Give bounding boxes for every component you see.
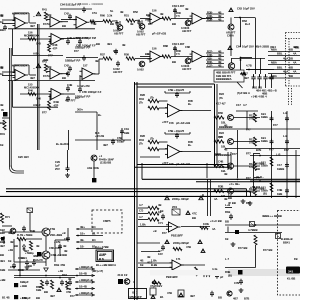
svg-text:BBL: BBL [277, 66, 283, 70]
svg-text:47B: 47B [167, 291, 172, 295]
svg-text:BB: BB [289, 48, 293, 52]
svg-text:4.7: 4.7 [243, 103, 247, 107]
svg-text:4B7: 4B7 [30, 24, 35, 28]
svg-text:B+ Bu/R.B: B+ Bu/R.B [56, 142, 69, 146]
svg-text:BB: BB [192, 216, 196, 220]
svg-text:pF+GF+GB: pF+GF+GB [152, 32, 166, 36]
svg-text:BBL: BBL [277, 52, 283, 56]
svg-text:4B7: 4B7 [244, 76, 249, 80]
svg-text:1BB: 1BB [36, 288, 41, 292]
svg-text:+B: +B [62, 231, 66, 235]
svg-text:C19: C19 [124, 127, 129, 131]
svg-text:B.B1B+B: B.B1B+B [281, 237, 293, 241]
svg-text:+C+C BB: +C+C BB [210, 219, 222, 223]
svg-text:156: 156 [152, 47, 157, 51]
svg-text:1B: 1B [225, 237, 228, 241]
svg-text:L-B: L-B [283, 134, 288, 138]
svg-text:BL+-+BB BBCA: BL+-+BB BBCA [96, 263, 116, 267]
svg-text:R1B 47B: R1B 47B [54, 263, 65, 267]
svg-text:BB: BB [48, 13, 52, 17]
svg-text:158: 158 [169, 121, 174, 125]
svg-text:R34: R34 [139, 138, 144, 142]
svg-text:+1BBpF+B: +1BBpF+B [79, 278, 93, 282]
svg-text:1BBk: 1BBk [261, 139, 268, 143]
svg-text:4B: 4B [130, 22, 133, 26]
svg-text:C84 0.067: C84 0.067 [172, 4, 185, 8]
svg-text:+14B 4 BB 4: +14B 4 BB 4 [251, 95, 267, 99]
svg-text:CMP5: CMP5 [103, 219, 111, 223]
svg-text:ZD1: ZD1 [172, 205, 178, 209]
svg-text:2SK+3BB: 2SK+3BB [50, 233, 62, 237]
svg-text:4B: 4B [185, 7, 188, 11]
svg-text:SL: SL [110, 9, 114, 13]
svg-text:PB21BFF: PB21BFF [171, 234, 183, 238]
svg-text:1B+: 1B+ [80, 232, 85, 236]
svg-text:(7k: (7k [139, 101, 143, 105]
svg-text:47C: 47C [192, 212, 197, 216]
svg-text:436-: 436- [207, 56, 212, 60]
svg-text:4B: 4B [158, 203, 161, 207]
svg-text:BB: BB [289, 74, 293, 78]
svg-text:1.Bk: 1.Bk [151, 259, 157, 263]
svg-text:PB21BFF: PB21BFF [166, 275, 178, 279]
svg-text:FF7: FF7 [74, 49, 79, 53]
svg-text:4A: 4A [214, 197, 217, 201]
svg-text:4B: 4B [218, 17, 221, 21]
svg-text:R28: R28 [140, 134, 145, 138]
svg-text:1B: 1B [8, 259, 11, 263]
svg-text:1B-4B: 1B-4B [79, 285, 87, 289]
svg-text:157: 157 [83, 64, 88, 68]
svg-text:R51: R51 [124, 14, 129, 18]
svg-text:4B7: 4B7 [243, 72, 248, 76]
svg-text:C7B: C7B [234, 281, 239, 285]
svg-text:R66: R66 [218, 111, 223, 115]
svg-text:C4B: C4B [218, 160, 223, 164]
svg-text:4.7pF+FM: 4.7pF+FM [77, 84, 90, 88]
svg-text:R45: R45 [28, 34, 33, 38]
svg-text:(4( B--: (4( B-- [256, 175, 264, 179]
svg-text:+1: +1 [99, 154, 103, 158]
svg-text:4B: 4B [160, 12, 163, 16]
svg-text:1BB: 1BB [277, 192, 282, 196]
svg-text:FF7: FF7 [246, 128, 251, 132]
svg-text:AR FF7: AR FF7 [226, 71, 236, 75]
svg-text:B.Bk: B.Bk [151, 263, 158, 267]
svg-text:+1BBpF+B: +1BBpF+B [79, 265, 93, 269]
svg-text:47B: 47B [66, 290, 71, 294]
svg-text:B+: B+ [188, 102, 192, 106]
svg-text:AB FF7: AB FF7 [114, 32, 124, 36]
svg-text:4B: 4B [218, 14, 221, 18]
svg-text:B4: B4 [92, 238, 96, 242]
svg-text:4B: 4B [0, 103, 3, 107]
svg-text:(MF)+17): (MF)+17) [92, 269, 103, 273]
svg-text:47P: 47P [53, 47, 58, 51]
svg-text:FF7 BB: FF7 BB [238, 246, 247, 250]
svg-text:R46: R46 [28, 89, 33, 93]
svg-text:BB: BB [62, 76, 66, 80]
svg-text:(7k: (7k [139, 142, 143, 146]
svg-text:4B: 4B [93, 22, 96, 26]
svg-text:BB: BB [62, 24, 66, 28]
svg-text:B1 4B: B1 4B [2, 296, 10, 300]
svg-text:4A: 4A [293, 70, 296, 74]
svg-text:+B: +B [153, 229, 157, 233]
svg-text:PL8+F8: PL8+F8 [33, 258, 43, 262]
svg-text:4A: 4A [293, 52, 296, 56]
svg-text:4B(4 ( BBB: 4B(4 ( BBB [255, 45, 269, 49]
svg-text:BB: BB [28, 264, 32, 268]
svg-text:4B1: 4B1 [107, 42, 112, 46]
svg-text:1.Bk: 1.Bk [140, 223, 146, 227]
svg-text:C63: C63 [237, 7, 242, 11]
svg-text:4B1: 4B1 [22, 256, 27, 260]
svg-text:B+3: B+3 [245, 22, 251, 26]
svg-text:4B: 4B [218, 63, 221, 67]
svg-text:FB: FB [294, 257, 298, 261]
svg-text:BB1 BB: BB1 BB [252, 86, 262, 90]
svg-text:R23: R23 [219, 92, 224, 96]
svg-text:4B+: 4B+ [80, 225, 85, 229]
svg-text:C17: C17 [236, 103, 241, 107]
svg-text:4B: 4B [224, 172, 227, 176]
svg-text:4.7: 4.7 [139, 203, 143, 207]
svg-text:10pF 25V: 10pF 25V [243, 7, 255, 11]
svg-text:1BBBpF P.P: 1BBBpF P.P [65, 59, 81, 63]
svg-text:10pF 25V: 10pF 25V [242, 45, 254, 49]
svg-text:FF7: FF7 [284, 148, 289, 152]
svg-text:C51: C51 [92, 11, 97, 15]
svg-text:4BBB+-+ BBBB: 4BBB+-+ BBBB [262, 214, 282, 218]
svg-text:FF7: FF7 [43, 74, 48, 78]
svg-text:BB: BB [96, 42, 100, 46]
svg-text:4B: 4B [64, 249, 67, 253]
svg-text:R36-: R36- [207, 60, 213, 64]
svg-text:C7): C7) [139, 209, 143, 213]
svg-text:(7k: (7k [150, 137, 154, 141]
svg-text:C36-: C36- [207, 53, 213, 57]
svg-text:+C+ 4B+: +C+ 4B+ [229, 182, 240, 186]
svg-text:+5V-FB: +5V-FB [95, 134, 104, 138]
svg-text:B+: B+ [188, 143, 192, 147]
svg-text:4B7: 4B7 [103, 143, 108, 147]
svg-text:pF+GF+GB: pF+GF+GB [176, 121, 190, 125]
svg-text:4B7: 4B7 [24, 249, 29, 253]
svg-text:4B-: 4B- [80, 238, 84, 242]
svg-text:NBA: NBA [271, 48, 277, 52]
svg-text:1BB: 1BB [0, 268, 5, 272]
svg-text:BB: BB [225, 220, 229, 224]
svg-text:R66: R66 [100, 14, 105, 18]
svg-text:300+: 300+ [77, 108, 83, 112]
svg-text:4B: 4B [218, 53, 221, 57]
svg-text:BB: BB [48, 65, 52, 69]
svg-text:1pF: 1pF [55, 164, 60, 168]
svg-text:+1BB: +1BB [20, 284, 27, 288]
svg-text:GBB: GBB [215, 152, 221, 156]
svg-text:R41: R41 [42, 8, 47, 12]
svg-text:R34: R34 [139, 97, 144, 101]
svg-text:4BB: 4BB [293, 45, 298, 49]
svg-text:R48: R48 [53, 43, 58, 47]
svg-text:AB FF7: AB FF7 [136, 33, 146, 37]
svg-text:C17: C17 [277, 163, 282, 167]
svg-text:C68: C68 [76, 44, 81, 48]
svg-text:R71: R71 [5, 215, 10, 219]
svg-text:4B7: 4B7 [50, 294, 55, 298]
svg-text:4B7: 4B7 [0, 244, 5, 248]
svg-text:4.7: 4.7 [139, 215, 143, 219]
svg-text:FF7: FF7 [246, 152, 251, 156]
svg-text:1000pF F.F: 1000pF F.F [82, 44, 96, 48]
svg-text:156: 156 [152, 9, 157, 13]
svg-text:IN: IN [1, 108, 4, 112]
svg-text:C84 0.067: C84 0.067 [172, 42, 185, 46]
svg-text:4BA: 4BA [283, 70, 288, 74]
svg-text:4B: 4B [218, 49, 221, 53]
svg-text:FF7: FF7 [269, 148, 274, 152]
svg-text:4B: 4B [95, 59, 98, 63]
svg-text:C64: C64 [236, 45, 241, 49]
svg-text:FF7: FF7 [75, 96, 80, 100]
svg-text:FF7: FF7 [162, 231, 167, 235]
svg-text:C42: C42 [64, 64, 69, 68]
svg-text:BB: BB [0, 121, 4, 125]
svg-text:B7B: B7B [256, 148, 261, 152]
svg-text:B1: B1 [160, 295, 164, 299]
svg-text:BB: BB [14, 244, 18, 248]
svg-text:(B): (B) [228, 274, 232, 278]
svg-text:L-B: L-B [283, 111, 288, 115]
svg-text:(7k: (7k [150, 96, 154, 100]
svg-text:~: ~ [33, 15, 35, 19]
svg-text:0.002: 0.002 [137, 68, 144, 72]
svg-text:BB: BB [172, 60, 176, 64]
svg-text:4A: 4A [212, 227, 215, 231]
svg-text:1B-4B: 1B-4B [79, 272, 87, 276]
svg-text:+FF7: +FF7 [162, 120, 169, 124]
svg-text:4.7B: 4.7B [246, 64, 252, 68]
svg-text:4B: 4B [36, 244, 39, 248]
svg-text:BB: BB [63, 253, 67, 257]
svg-text:1B: 1B [0, 143, 3, 147]
svg-text:NBA: NBA [271, 61, 277, 65]
svg-text:4B: 4B [120, 10, 123, 14]
svg-text:171: 171 [176, 257, 181, 261]
svg-text:1BB: 1BB [124, 131, 129, 135]
svg-text:+17B: +17B [20, 296, 27, 300]
svg-text:L-7: L-7 [225, 257, 230, 261]
svg-text:4B7: 4B7 [190, 294, 195, 298]
svg-text:pF: pF [220, 275, 224, 279]
svg-text:4B: 4B [147, 255, 150, 259]
svg-text:C42: C42 [64, 12, 69, 16]
svg-text:C29: C29 [55, 160, 60, 164]
svg-text:1B-: 1B- [80, 245, 84, 249]
svg-text:F7B: F7B [50, 227, 55, 231]
svg-text:C4B: C4B [67, 83, 72, 87]
svg-text:4.7BBB: 4.7BBB [248, 228, 258, 232]
svg-text:4B1: 4B1 [0, 259, 5, 263]
svg-text:R3B: R3B [225, 270, 230, 274]
svg-text:B+: B+ [98, 113, 102, 117]
svg-text:(B(: (B( [263, 192, 267, 196]
svg-text:pF+GF+GB: pF+GF+GB [176, 162, 190, 166]
svg-text:C37-: C37- [207, 63, 213, 67]
svg-text:4B: 4B [10, 240, 13, 244]
svg-text:4B: 4B [218, 56, 221, 60]
svg-text:341: 341 [288, 269, 293, 273]
svg-text:B4: B4 [92, 225, 96, 229]
svg-text:R3B: R3B [218, 185, 223, 189]
svg-text:(7k: (7k [219, 96, 223, 100]
svg-text:BB: BB [36, 296, 40, 300]
svg-text:2111 C2: 2111 C2 [118, 273, 128, 277]
svg-text:C65 1000pF F.F: C65 1000pF F.F [82, 90, 102, 94]
svg-text:1,2 BBB: 1,2 BBB [254, 162, 264, 166]
svg-text:4B: 4B [218, 10, 221, 14]
svg-text:1BBk: 1BBk [261, 115, 268, 119]
svg-text:R01: R01 [0, 132, 5, 136]
svg-text:R88: R88 [163, 44, 168, 48]
svg-text:BBBBBBB: BBBBBBB [219, 125, 233, 129]
svg-text:BB: BB [256, 167, 260, 171]
svg-text:3.3k: 3.3k [107, 14, 113, 18]
svg-text:R68: R68 [76, 36, 81, 40]
svg-text:BB: BB [110, 22, 114, 26]
svg-text:R38-: R38- [207, 10, 213, 14]
svg-text:C5B +10p/25: C5B +10p/25 [168, 88, 185, 92]
svg-text:+BB: +BB [0, 278, 6, 282]
svg-text:25V: 25V [55, 167, 60, 171]
svg-text:4B: 4B [63, 244, 66, 248]
svg-text:FF7: FF7 [43, 22, 48, 26]
svg-text:FF7: FF7 [42, 111, 47, 115]
svg-text:BB: BB [172, 22, 176, 26]
svg-text:+2B: +2B [8, 248, 13, 252]
svg-text:R28: R28 [140, 93, 145, 97]
svg-text:C8B+1B4: C8B+1B4 [51, 253, 63, 257]
svg-text:R57: R57 [100, 53, 105, 57]
svg-text:AB FF7: AB FF7 [182, 67, 192, 71]
svg-text:M5216FP: M5216FP [130, 295, 142, 299]
svg-text:B1: B1 [92, 232, 96, 236]
svg-text:FF7: FF7 [232, 152, 237, 156]
svg-text:+17B: +17B [54, 240, 61, 244]
svg-text:R58: R58 [124, 53, 129, 57]
svg-text:R37-: R37- [207, 49, 213, 53]
svg-text:A1B: A1B [87, 166, 92, 170]
svg-text:C71: C71 [158, 221, 163, 225]
svg-text:BB: BB [289, 66, 293, 70]
svg-text:~: ~ [33, 67, 35, 71]
svg-text:BBBBBBBA: BBBBBBBA [216, 77, 232, 81]
svg-text:1B5 1BV: 1B5 1BV [18, 155, 29, 159]
svg-text:BB41: BB41 [283, 241, 290, 245]
svg-text:2200p- 820pF: 2200p- 820pF [172, 197, 189, 201]
svg-text:4B: 4B [0, 13, 3, 17]
svg-text:FF7: FF7 [273, 123, 278, 127]
svg-text:7.5: 7.5 [176, 14, 180, 18]
svg-text:+1BBpF+B: +1BBpF+B [79, 291, 93, 295]
svg-text:R4B: R4B [30, 229, 35, 233]
svg-text:C63A: C63A [227, 34, 234, 38]
svg-text:C88: C88 [185, 45, 190, 49]
svg-text:16V: 16V [158, 252, 163, 256]
svg-text:AB FF7: AB FF7 [113, 70, 123, 74]
svg-text:R18: R18 [62, 273, 67, 277]
svg-text:C17 4(7: C17 4(7 [216, 102, 226, 106]
svg-text:C36-: C36- [207, 14, 213, 18]
svg-text:4A: 4A [293, 61, 296, 65]
svg-text:7.5: 7.5 [176, 52, 180, 56]
svg-text:100pF: 100pF [117, 140, 125, 144]
svg-text:100k: 100k [93, 166, 99, 170]
svg-text:B+L+17BB: B+L+17BB [95, 245, 109, 249]
svg-text:(7pF BB A: (7pF BB A [237, 91, 250, 95]
svg-text:4BB: 4BB [43, 58, 48, 62]
svg-text:C3B: C3B [277, 188, 282, 192]
svg-text:R-7B +7BBk: R-7B +7BBk [17, 233, 33, 237]
svg-text:R52: R52 [133, 10, 138, 14]
svg-text:4BA: 4BA [283, 57, 288, 61]
svg-text:FF7: FF7 [70, 294, 75, 298]
svg-text:158: 158 [169, 162, 174, 166]
svg-text:4F BB: 4F BB [228, 201, 236, 205]
svg-text:4B BBB + 4 BBBBB: 4B BBB + 4 BBBBB [78, 2, 103, 6]
svg-text:1B: 1B [0, 20, 3, 24]
svg-text:BB: BB [218, 296, 222, 300]
svg-text:4B: 4B [140, 259, 143, 263]
svg-text:FF7 BB: FF7 BB [263, 248, 272, 252]
svg-text:+4B: +4B [58, 269, 63, 273]
svg-text:AB FF7: AB FF7 [182, 29, 192, 33]
svg-text:B7B: B7B [244, 297, 249, 300]
svg-text:2200p 820pF: 2200p 820pF [173, 241, 189, 245]
svg-text:P.S.: P.S. [99, 257, 105, 261]
svg-text:BB: BB [0, 253, 4, 257]
svg-text:1000pF FM: 1000pF FM [82, 36, 97, 40]
svg-text:4B: 4B [218, 60, 221, 64]
svg-text:R4B: R4B [54, 100, 59, 104]
svg-text:1B: 1B [160, 209, 163, 213]
svg-text:BB: BB [44, 290, 48, 294]
svg-text:R44B+1B4F: R44B+1B4F [99, 158, 114, 162]
svg-text:4B: 4B [8, 231, 11, 235]
svg-text:47B: 47B [186, 245, 191, 249]
svg-text:4B: 4B [0, 66, 3, 70]
svg-text:R39-: R39- [207, 17, 213, 21]
svg-text:C5B +10p/25: C5B +10p/25 [168, 129, 185, 133]
svg-text:1BBB: 1BBB [277, 167, 284, 171]
svg-text:1B: 1B [140, 263, 143, 267]
svg-text:1BBpF: 1BBpF [20, 280, 29, 284]
svg-text:KL-BB: KL-BB [287, 277, 295, 281]
svg-text:4B: 4B [224, 197, 227, 201]
svg-text:+3B: +3B [0, 236, 5, 240]
svg-text:(7k: (7k [219, 135, 223, 139]
svg-text:+/C+B(4: +/C+B(4 [250, 185, 261, 189]
svg-text:100k: 100k [203, 222, 209, 226]
svg-text:R23: R23 [219, 131, 224, 135]
svg-text:48B: 48B [33, 254, 38, 258]
svg-text:+FF7: +FF7 [162, 161, 169, 165]
svg-text:4B7: 4B7 [30, 76, 35, 80]
svg-text:R1B: R1B [225, 210, 230, 214]
svg-text:4B: 4B [122, 43, 125, 47]
svg-text:BB: BB [289, 57, 293, 61]
